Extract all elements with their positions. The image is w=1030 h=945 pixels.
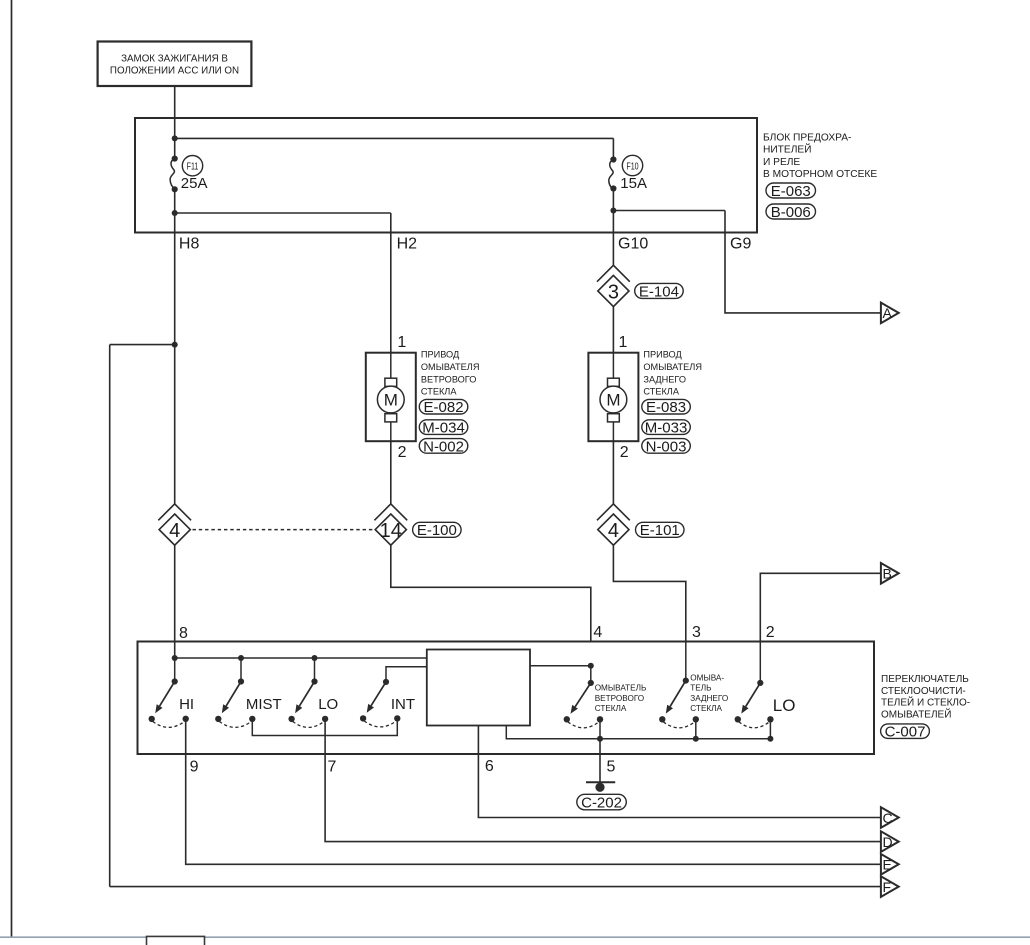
wire down to fuse F11 [174,138,176,158]
wire G10 down to connector 3 [612,233,614,266]
connector 4 (E-101) [597,504,630,545]
svg-text:M: M [606,391,620,410]
svg-text:N-003: N-003 [646,438,687,455]
svg-text:E-082: E-082 [424,399,464,416]
wire LO contact to bus [769,719,771,739]
svg-text:ОМЫВА-ТЕЛЬЗАДНЕГОСТЕКЛА: ОМЫВА-ТЕЛЬЗАДНЕГОСТЕКЛА [690,673,728,713]
connector oval N-002 [419,438,468,455]
fuse/relay box outline [135,118,757,233]
wire H2 down to motor [390,233,392,353]
ignition switch block [98,42,252,87]
rear washer motor M (E-083) [588,353,638,442]
svg-text:ПОЛОЖЕНИИ ACC ИЛИ ON: ПОЛОЖЕНИИ ACC ИЛИ ON [110,66,239,77]
connector oval E-063 [766,183,816,200]
wire pin4 node to washer pivot [590,666,592,683]
connector oval N-003 [642,438,691,455]
node junction at F11 top feed [172,135,178,141]
wire branch to left rail [110,344,175,346]
wire pin 7 to arrow D [325,719,881,842]
connector 3 (E-104) [597,265,630,306]
svg-text:ПЕРЕКЛЮЧАТЕЛЬСТЕКЛООЧИСТИ-ТЕЛЕ: ПЕРЕКЛЮЧАТЕЛЬСТЕКЛООЧИСТИ-ТЕЛЕЙ И СТЕКЛО… [881,674,970,721]
node bus dot HI [172,655,178,661]
wiper switch MIST [215,678,255,727]
svg-text:7: 7 [328,759,337,776]
node bus dot LO [312,655,318,661]
wiper/washer switch box outline C-007 [138,642,875,755]
rear washer switch [659,678,699,728]
connector oval E-104 [635,283,684,300]
svg-text:A: A [883,305,893,321]
wire pin 9 to arrow E [186,719,881,864]
svg-text:H2: H2 [397,235,418,252]
svg-text:4: 4 [169,520,180,542]
svg-text:2: 2 [398,444,407,461]
node junction H8 branch [172,342,178,348]
svg-text:25A: 25A [181,175,208,192]
fuse F11 designator circle [182,156,202,176]
wire H8 junction down to connector 4 [174,345,176,505]
harness dashed link 4 to 14 [193,529,374,531]
washer LO switch [735,680,774,728]
wire G9 drop inside box [724,211,726,233]
ground bar C-202 [586,782,615,792]
svg-text:E-100: E-100 [417,522,457,539]
svg-text:B: B [883,566,892,582]
svg-text:F11: F11 [187,160,199,172]
svg-text:MIST: MIST [246,696,282,713]
wiper switch HI [149,678,189,727]
svg-text:E-104: E-104 [639,283,679,300]
front washer motor M (E-082) [366,353,416,442]
wire G9 to arrow A [725,233,881,313]
svg-text:C: C [883,810,893,826]
connector 4 (left) [158,504,191,545]
wire left rail down to F [109,345,111,887]
node junction F10 lower [610,208,616,214]
wire pin 2 to arrow B [760,573,881,641]
svg-text:ОМЫВАТЕЛЬВЕТРОВОГОСТЕКЛА: ОМЫВАТЕЛЬВЕТРОВОГОСТЕКЛА [595,684,647,713]
svg-text:4: 4 [593,624,602,641]
svg-text:D: D [883,834,893,850]
svg-text:8: 8 [179,625,188,642]
svg-text:E: E [883,857,892,873]
svg-text:LO: LO [318,696,338,713]
connector 14 (E-100) [374,504,407,545]
svg-text:ПРИВОДОМЫВАТЕЛЯВЕТРОВОГОСТЕКЛА: ПРИВОДОМЫВАТЕЛЯВЕТРОВОГОСТЕКЛА [421,350,480,397]
front washer switch [564,680,604,728]
wire rear washer contact to bus [695,719,697,739]
page footer rule [0,936,1030,938]
connector oval E-083 [642,399,691,416]
svg-text:F: F [883,879,892,895]
node junction F11 lower [172,210,178,216]
connector oval M-034 [419,420,468,437]
wire connector 4 to switch pin 8 [174,545,176,658]
off-page arrow D [881,831,899,852]
svg-text:E-083: E-083 [646,399,686,416]
connector oval B-006 [766,204,816,221]
wire down to fuse F10 [612,138,614,159]
off-page arrow E [881,854,899,875]
svg-text:M-034: M-034 [422,420,465,437]
svg-text:3: 3 [608,281,619,303]
off-page arrow B [881,563,899,584]
svg-text:15A: 15A [620,175,647,192]
svg-text:C-007: C-007 [885,724,926,741]
wire F11 to H8/H2 node [174,189,176,232]
svg-text:3: 3 [692,624,701,641]
connector oval C-007 [881,724,930,741]
wire connector E-101 to switch pin 3 [613,545,685,641]
svg-text:1: 1 [397,334,406,351]
svg-text:1: 1 [619,334,628,351]
node junction pin4/washer [588,663,594,669]
wire motor to connector 14 [390,441,392,505]
page left border line [11,0,13,937]
svg-text:E-101: E-101 [640,522,680,539]
connector oval E-101 [636,522,685,539]
svg-text:C-202: C-202 [581,794,622,811]
wire connector 3 to rear motor [612,307,614,353]
node bus dot MIST [238,655,244,661]
wire bus to LO pivot [314,658,316,682]
wire pin 2 to LO pivot [759,642,761,683]
node washer bus front [597,736,603,742]
wire left rail to arrow F [110,886,881,888]
wire H2 drop inside box [390,213,392,233]
svg-text:6: 6 [485,758,494,775]
wire F10 to G10 [612,189,614,233]
svg-text:4: 4 [608,520,619,542]
wire feed bus F11 to F10 [175,137,614,139]
svg-text:INT: INT [391,696,415,713]
svg-text:B-006: B-006 [771,204,811,221]
wire H8 down to junction A1 [174,233,176,345]
off-page arrow C [881,807,899,828]
svg-text:F10: F10 [626,160,638,172]
svg-text:E-063: E-063 [771,183,811,200]
wire to G9 drop [613,210,725,212]
svg-text:H8: H8 [179,235,200,252]
wire INT pivot to control unit [386,667,427,682]
connector oval E-082 [419,399,468,416]
svg-text:5: 5 [607,759,616,776]
intermittent control unit box [427,650,530,726]
off-page arrow F [881,876,899,897]
wire bus to MIST pivot [240,658,242,682]
wire control unit to pin4 node [530,665,591,667]
svg-text:HI: HI [179,696,194,713]
switch internal supply bus [175,657,427,659]
wiper switch LO [288,678,328,727]
node washer bus rear [693,736,699,742]
svg-text:G10: G10 [618,235,648,252]
fuse F10 element [609,156,617,191]
svg-text:9: 9 [190,759,199,776]
svg-text:G9: G9 [730,235,751,252]
washer common bus [506,726,770,739]
wire connector 14 to switch pin 4 [391,545,591,641]
wire bus to HI pivot [174,658,176,682]
wire MIST contact to INT contact [252,718,397,735]
svg-text:M-033: M-033 [645,420,688,437]
svg-text:2: 2 [620,444,629,461]
footer tab [147,936,205,945]
connector oval M-033 [642,420,691,437]
off-page arrow A [881,303,899,324]
wire ignition to fuse box [174,86,176,138]
wire rear motor to connector 4 (E-101) [612,441,614,505]
connector oval E-100 [413,522,462,539]
svg-text:ЗАМОК ЗАЖИГАНИЯ В: ЗАМОК ЗАЖИГАНИЯ В [121,54,228,65]
svg-text:N-002: N-002 [423,438,464,455]
connector oval C-202 [577,794,627,811]
wire front washer contact to bus [599,719,601,739]
wiper switch INT [360,679,401,727]
wire to H2 drop [175,212,391,214]
svg-text:2: 2 [766,624,775,641]
svg-text:LO: LO [773,696,796,715]
wire pin 5 to ground [599,739,601,787]
wire pin 3 to rear washer pivot [685,642,687,681]
fuse F10 designator circle [622,155,642,175]
svg-text:ПРИВОДОМЫВАТЕЛЯЗАДНЕГОСТЕКЛА: ПРИВОДОМЫВАТЕЛЯЗАДНЕГОСТЕКЛА [643,350,702,397]
node washer bus LO [767,736,773,742]
svg-text:БЛОК ПРЕДОХРА-НИТЕЛЕЙИ РЕЛЕВ М: БЛОК ПРЕДОХРА-НИТЕЛЕЙИ РЕЛЕВ МОТОРНОМ ОТ… [763,133,877,180]
wire pin 6 to arrow C [478,726,881,818]
svg-text:14: 14 [380,520,402,542]
fuse F11 element [170,156,178,193]
svg-text:M: M [384,391,398,410]
